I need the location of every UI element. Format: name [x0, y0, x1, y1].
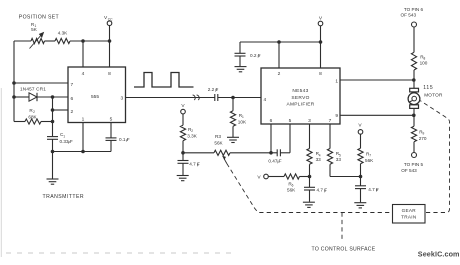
- node diode cathode junction: [51, 95, 55, 99]
- svg-text:μ: μ: [277, 159, 279, 163]
- potentiometer R3 56K feedback: [214, 134, 230, 164]
- node pin 8 supply: [319, 40, 323, 44]
- node pin1 bottom row: [81, 150, 85, 154]
- svg-text:0.1 F: 0.1 F: [119, 137, 130, 142]
- break symbol coupling squiggle: [193, 95, 200, 100]
- svg-text:7: 7: [71, 82, 74, 88]
- svg-text:100: 100: [420, 60, 428, 65]
- node junction Vcc column: [108, 39, 112, 43]
- wire terminal to R8: [413, 27, 415, 52]
- gear train box: [393, 205, 426, 224]
- resistor R6 56K: [284, 174, 310, 193]
- capacitor 0.1uF on pin 5: [106, 123, 130, 152]
- ground pin 7 net: [354, 202, 366, 204]
- svg-text:TRANSMITTER: TRANSMITTER: [43, 194, 85, 200]
- wire pin 9 to motor bottom node: [340, 114, 414, 116]
- wire pin 7 of 555 to left rail: [14, 82, 68, 84]
- scan artifact faint left edge: [0, 88, 2, 257]
- wire ground drop: [52, 152, 54, 180]
- capacitor 0.47uF between pin6 and pin5: [268, 149, 290, 163]
- node motor bottom: [412, 114, 416, 118]
- capacitor 4.7uF on pin 7 net: [355, 177, 379, 203]
- svg-text:OF 543: OF 543: [401, 168, 417, 173]
- svg-text:μ: μ: [258, 54, 260, 58]
- node motor top feed: [412, 78, 416, 82]
- svg-text:9: 9: [335, 113, 338, 119]
- wire left rail: [13, 41, 15, 122]
- svg-text:115: 115: [423, 85, 433, 91]
- resistor R8 100: [411, 52, 427, 70]
- svg-text:6: 6: [270, 118, 273, 124]
- svg-text:TO CONTROL SURFACE: TO CONTROL SURFACE: [312, 247, 376, 253]
- wire pin 2 of 555: [53, 109, 69, 111]
- svg-text:CC: CC: [108, 17, 113, 21]
- resistor R2 68K: [14, 108, 53, 124]
- svg-text:33: 33: [336, 157, 342, 162]
- svg-text:33: 33: [316, 157, 322, 162]
- dashed linkage R3 wiper to gear train: [227, 164, 393, 213]
- resistor R9 270: [411, 126, 426, 142]
- power terminal V reference: [181, 103, 186, 125]
- capacitor C1 0.33uF: [47, 132, 73, 151]
- svg-text:555: 555: [91, 94, 99, 100]
- node pin 2 supply: [277, 40, 281, 44]
- resistor R2 3.3K reference divider: [180, 125, 197, 153]
- wire bottom row of transmitter: [53, 151, 112, 153]
- svg-text:TO PIN 6: TO PIN 6: [404, 7, 424, 12]
- ground supply bypass: [235, 66, 247, 68]
- svg-text:POSITION SET: POSITION SET: [19, 15, 60, 21]
- capacitor 2.2uF coupling: [208, 87, 219, 101]
- svg-text:56K: 56K: [365, 158, 374, 163]
- svg-text:5K: 5K: [31, 27, 38, 32]
- scan artifact faint bottom dashes: [6, 252, 232, 254]
- resistor R4 33: [307, 124, 321, 177]
- svg-text:56K: 56K: [214, 141, 223, 146]
- ground pin 3 net: [303, 201, 315, 203]
- wire pot to 4.3K: [45, 40, 56, 42]
- svg-text:μ: μ: [376, 188, 378, 192]
- svg-text:μ: μ: [68, 140, 70, 144]
- svg-text:1: 1: [63, 134, 65, 138]
- resistor R1 10K input bias: [230, 98, 247, 138]
- waveform pulse train symbol: [134, 73, 194, 88]
- svg-text:AMPLIFIER: AMPLIFIER: [286, 102, 314, 108]
- wire diode cathode to pin 6: [37, 96, 68, 98]
- wire pin 1 to motor node: [340, 79, 414, 81]
- svg-text:5: 5: [289, 118, 292, 124]
- wire vertical feedback column: [52, 97, 54, 136]
- terminal to pin 5 of 543: [412, 153, 417, 158]
- wire capacitor to NE543 pin 4: [218, 97, 261, 99]
- wire pin 8 stub: [320, 42, 322, 68]
- svg-text:0.33 F: 0.33 F: [60, 139, 73, 144]
- wire 4.3K to Vcc column: [70, 40, 110, 42]
- potentiometer R1 5K: [30, 22, 45, 49]
- wire supply row over NE543: [240, 41, 321, 43]
- svg-text:SeekIC.com: SeekIC.com: [418, 250, 460, 259]
- svg-text:56K: 56K: [287, 187, 296, 192]
- svg-text:μ: μ: [215, 88, 217, 92]
- wire pin 2 stub: [278, 42, 280, 68]
- svg-text:5: 5: [110, 116, 113, 122]
- power terminal V bias R6: [257, 174, 284, 180]
- svg-text:0.47 F: 0.47 F: [268, 158, 281, 163]
- op-amp U1 555 timer IC: [68, 67, 126, 123]
- wire R8 to motor: [413, 70, 415, 88]
- node left rail diode row: [12, 95, 16, 99]
- wire top row to pot: [14, 40, 31, 42]
- wire R9 to terminal: [413, 142, 415, 153]
- dashed linkage branch to control surface: [341, 213, 343, 241]
- wire 555 output pin 3: [126, 97, 215, 99]
- ground transmitter: [47, 178, 59, 180]
- svg-text:μ: μ: [197, 163, 199, 167]
- svg-text:3: 3: [308, 118, 311, 124]
- ground reference: [177, 175, 189, 177]
- power terminal V servo supply: [318, 16, 323, 43]
- node pin 6 feedback row: [269, 151, 273, 155]
- op-amp U2 NE543 servo amplifier IC: [261, 68, 340, 124]
- svg-text:MOTOR: MOTOR: [424, 92, 443, 97]
- label TO PIN 5 OF 543: [401, 162, 423, 173]
- svg-text:TRAIN: TRAIN: [401, 215, 416, 220]
- wire R5 to R7 node: [330, 176, 361, 178]
- resistor R7 56K: [358, 148, 374, 176]
- wire motor to bottom node: [413, 108, 415, 126]
- svg-text:R3: R3: [215, 134, 221, 139]
- wire pin 4 stub of 555: [82, 41, 84, 67]
- svg-text:6: 6: [71, 96, 74, 102]
- svg-text:2: 2: [278, 71, 281, 77]
- svg-text:3: 3: [121, 95, 124, 101]
- resistor 4.3K: [55, 31, 70, 44]
- svg-text:1: 1: [82, 116, 85, 122]
- capacitor 0.2uF supply bypass: [235, 42, 261, 66]
- svg-text:7: 7: [329, 118, 332, 124]
- svg-text:NE543: NE543: [292, 88, 308, 94]
- svg-text:8: 8: [319, 71, 322, 77]
- svg-text:GEAR: GEAR: [402, 208, 417, 213]
- dashed linkage gear train to motor: [420, 101, 449, 213]
- label TO PIN 6 OF 543: [401, 7, 424, 17]
- svg-text:8: 8: [108, 71, 111, 77]
- node 68K row: [51, 120, 55, 124]
- node servo input: [231, 96, 235, 100]
- power terminal V bias R7: [358, 123, 363, 149]
- node junction pin4 column: [81, 39, 85, 43]
- node R7 bottom: [359, 175, 363, 179]
- node R4 bottom: [308, 175, 312, 179]
- svg-text:1: 1: [335, 78, 338, 84]
- wire pin 1 stub down: [82, 123, 84, 152]
- wire left rail to diode: [14, 96, 29, 98]
- wire pin 8 stub of 555: [109, 41, 111, 67]
- capacitor 4.7uF reference: [178, 153, 201, 175]
- wire pin 6 stub down: [270, 124, 272, 153]
- svg-text:4: 4: [264, 97, 267, 103]
- node C1 bottom junction: [51, 150, 55, 154]
- motor M1 115 motor: [408, 85, 443, 108]
- ground under R1 10K: [227, 136, 239, 138]
- wire feedback row to R3: [183, 152, 214, 154]
- svg-text:OF 543: OF 543: [401, 13, 417, 18]
- power terminal Vcc: [104, 15, 113, 41]
- svg-text:μ: μ: [324, 188, 326, 192]
- svg-text:1N457 CR1: 1N457 CR1: [20, 87, 46, 92]
- svg-text:4: 4: [82, 71, 85, 77]
- svg-text:SERVO: SERVO: [291, 95, 309, 101]
- svg-text:2: 2: [71, 109, 74, 115]
- svg-text:270: 270: [419, 136, 427, 141]
- wire R3 to pin 6 node: [230, 152, 271, 154]
- resistor R5 33: [327, 124, 341, 177]
- svg-text:μ: μ: [126, 138, 128, 142]
- svg-text:3.3K: 3.3K: [187, 133, 197, 138]
- svg-text:10K: 10K: [238, 119, 247, 124]
- terminal to pin 6 of 543: [412, 22, 417, 27]
- wire pin 5 stub down: [289, 124, 291, 153]
- node left rail pin7: [12, 81, 16, 85]
- svg-text:TO PIN 5: TO PIN 5: [404, 162, 424, 167]
- diode CR1 1N457: [29, 93, 37, 101]
- svg-text:4.3K: 4.3K: [58, 31, 68, 36]
- node pin 2 row: [51, 108, 55, 112]
- node R2 bottom: [181, 151, 185, 155]
- svg-text:68K: 68K: [28, 114, 37, 119]
- capacitor 4.7uF on pin 3 net: [304, 177, 327, 202]
